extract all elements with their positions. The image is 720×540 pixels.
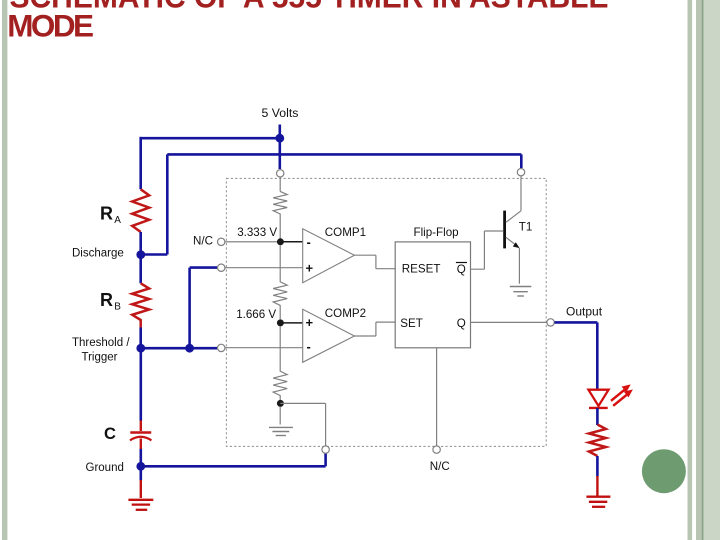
wire COMP2 output to SET xyxy=(354,322,395,336)
svg-text:SET: SET xyxy=(400,317,423,330)
svg-text:SCHEMATIC OF A 555 TIMER IN AS: SCHEMATIC OF A 555 TIMER IN ASTABLE xyxy=(10,0,609,15)
svg-text:Output: Output xyxy=(566,304,603,318)
svg-text:5 Volts: 5 Volts xyxy=(262,106,299,120)
wire flip-flop bottom to NC pin xyxy=(436,348,438,446)
wire trigger up and right to pin xyxy=(190,268,218,349)
svg-text:N/C: N/C xyxy=(430,460,450,473)
svg-text:N/C: N/C xyxy=(193,234,213,247)
resistor divider middle xyxy=(273,245,287,319)
svg-text:+: + xyxy=(306,315,314,330)
wire output to LED xyxy=(555,322,598,389)
svg-text:COMP2: COMP2 xyxy=(325,307,366,320)
resistor RB xyxy=(132,283,149,327)
capacitor C xyxy=(130,421,151,450)
wire capacitor to ground node xyxy=(140,449,143,466)
right border stripe group xyxy=(688,0,720,540)
svg-text:1.666 V: 1.666 V xyxy=(236,308,276,321)
wire threshold horizontal to pin xyxy=(141,347,218,350)
LED arrows xyxy=(611,384,633,405)
svg-text:Q: Q xyxy=(457,317,466,330)
wire ground rail to pin 1 xyxy=(141,453,326,466)
resistor RA xyxy=(132,189,149,232)
decorative green circle xyxy=(642,449,686,493)
pin circle VCC (divider top) xyxy=(277,170,284,177)
svg-text:Trigger: Trigger xyxy=(82,352,118,364)
ground symbol transistor emitter xyxy=(510,287,532,297)
pin circle trigger xyxy=(218,344,225,351)
pin circle COMP1 plus xyxy=(218,264,225,271)
svg-text:+: + xyxy=(306,261,314,276)
op-amp COMP2 xyxy=(303,307,366,362)
wire resistor to ground xyxy=(596,456,599,477)
wire Qbar to transistor base xyxy=(471,231,504,269)
node ground junction dot xyxy=(136,462,145,471)
label RA xyxy=(100,204,121,226)
node 1.666V dot xyxy=(277,319,284,326)
svg-text:Discharge: Discharge xyxy=(72,248,124,260)
wire RB to threshold node xyxy=(139,328,142,349)
svg-text:B: B xyxy=(114,301,121,312)
pin circle output xyxy=(547,319,554,326)
svg-text:Q: Q xyxy=(457,263,466,276)
left border stripe xyxy=(2,0,7,540)
pin circle ground xyxy=(322,446,329,453)
resistor divider top xyxy=(273,191,287,238)
wire ground stub below node xyxy=(140,466,143,480)
svg-text:T1: T1 xyxy=(519,221,533,234)
wire COMP1 plus input xyxy=(225,267,303,269)
wire threshold node down to capacitor xyxy=(140,348,143,421)
svg-text:Ground: Ground xyxy=(86,462,124,474)
wire VCC horizontal to RA xyxy=(140,137,281,140)
flip-flop U1 box xyxy=(395,242,470,348)
node divider-bottom dot xyxy=(277,400,284,407)
ground symbol internal divider xyxy=(269,427,293,435)
title text (first line cut off at top) xyxy=(7,0,608,43)
svg-text:-: - xyxy=(307,234,311,249)
node discharge junction dot xyxy=(136,250,145,259)
svg-text:A: A xyxy=(114,215,121,226)
pin circle N/C bottom xyxy=(433,446,440,453)
node VCC junction dot xyxy=(275,134,284,143)
ground symbol right xyxy=(586,497,610,507)
resistor output load xyxy=(589,425,606,457)
svg-text:RESET: RESET xyxy=(402,263,441,276)
label Qbar with overline xyxy=(456,263,467,277)
wire RA top vertical xyxy=(139,137,142,189)
resistor divider bottom xyxy=(273,326,287,400)
wire RB top vertical xyxy=(139,255,142,284)
internal divider: wire from pin8 circle down xyxy=(279,177,281,191)
wire divider bottom to ground pin xyxy=(280,403,325,446)
wire VCC down to pin 8 xyxy=(278,140,281,169)
wire 5V stub xyxy=(278,125,281,136)
svg-text:COMP1: COMP1 xyxy=(325,226,366,239)
wire 3.333 node to COMP1 minus xyxy=(280,241,303,243)
LED D1 xyxy=(588,390,608,408)
wire COMP1 output to RESET xyxy=(354,255,395,269)
wire divider bottom to internal ground xyxy=(279,407,281,425)
ground symbol left xyxy=(128,500,153,510)
svg-text:3.333 V: 3.333 V xyxy=(237,226,277,239)
wire COMP2 minus input xyxy=(225,347,303,349)
svg-text:R: R xyxy=(100,204,113,224)
wire LED to resistor xyxy=(596,408,599,425)
node threshold junction dot xyxy=(136,344,145,353)
wire 1.666 node to COMP2 plus xyxy=(284,322,303,324)
wire RA to discharge node xyxy=(139,232,142,255)
svg-text:Flip-Flop: Flip-Flop xyxy=(414,226,459,239)
pin circle collector top xyxy=(517,169,524,176)
op-amp COMP1 xyxy=(303,226,366,283)
label RB xyxy=(100,290,121,313)
wire discharge horizontal rail xyxy=(141,154,522,254)
wire N/C pin to 3.333 node xyxy=(225,241,277,243)
svg-text:R: R xyxy=(100,290,113,310)
svg-text:C: C xyxy=(104,425,116,443)
label Threshold / Trigger xyxy=(72,337,130,364)
pin circle N/C left xyxy=(218,238,225,245)
wire Q output to pin 3 xyxy=(471,321,547,323)
transistor T1 xyxy=(505,176,521,283)
node 3.333V dot xyxy=(277,238,284,245)
svg-text:Threshold /: Threshold / xyxy=(72,337,130,349)
svg-text:MODE: MODE xyxy=(7,7,93,43)
svg-text:-: - xyxy=(307,339,311,354)
node trigger junction dot xyxy=(185,344,194,353)
dashed IC boundary box xyxy=(226,178,546,446)
